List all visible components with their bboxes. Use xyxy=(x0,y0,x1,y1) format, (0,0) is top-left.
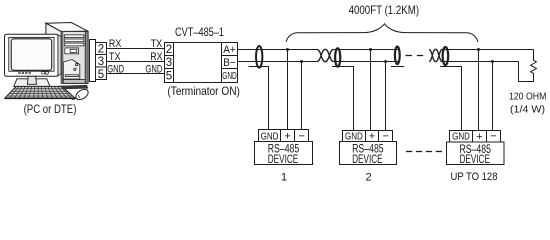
monitor body xyxy=(5,34,59,76)
GND stub 1 xyxy=(249,67,269,131)
U1 pin A+ cell xyxy=(222,55,238,57)
tap wire device2 plus xyxy=(370,50,372,131)
twist 1 wire A xyxy=(317,49,334,61)
tower front left dark edge xyxy=(61,32,63,84)
chain dashes between device 2 and 3 xyxy=(406,151,442,153)
keyboard xyxy=(5,86,76,98)
mouse xyxy=(74,87,90,101)
cable ellipse E4 xyxy=(443,47,449,65)
junction dot device1 minus xyxy=(300,60,303,63)
twist 1 wire B xyxy=(317,49,334,61)
tower floppy slot xyxy=(65,75,78,77)
computer tower front face xyxy=(61,31,88,83)
monitor bezel xyxy=(9,37,54,71)
connector P1 pin 5 box xyxy=(96,67,107,80)
wire bus B segment 1 xyxy=(238,61,318,63)
tower angled button panel xyxy=(63,60,80,80)
device 3 terminal block xyxy=(450,131,501,143)
tower drive bay 1 xyxy=(64,35,84,38)
monitor power switch xyxy=(42,72,45,74)
dimension brace xyxy=(286,24,478,42)
GND stub 2 xyxy=(332,67,354,131)
monitor stand base xyxy=(14,79,50,87)
svg-text:4000FT (1.2KM): 4000FT (1.2KM) xyxy=(349,3,420,17)
svg-text:DEVICE: DEVICE xyxy=(459,152,490,166)
U1 pin 2 cell xyxy=(165,55,174,57)
svg-text:−: − xyxy=(383,130,389,142)
wire GND-GND row3 xyxy=(107,73,165,75)
tower front right dark edge xyxy=(85,31,88,83)
tower drive bay 3 xyxy=(64,43,84,46)
svg-text:GND: GND xyxy=(107,63,124,75)
svg-text:GND: GND xyxy=(145,63,162,75)
junction dot device2 plus xyxy=(369,48,372,51)
junction dot device2 minus xyxy=(384,60,387,63)
connector P1 body xyxy=(90,40,96,82)
svg-text:RX: RX xyxy=(109,38,122,50)
tower reset button xyxy=(74,68,76,70)
monitor side depth xyxy=(58,35,61,76)
device 1 box xyxy=(255,142,313,165)
svg-text:−: − xyxy=(490,131,496,143)
svg-text:120 OHM: 120 OHM xyxy=(509,90,547,102)
svg-text:3: 3 xyxy=(166,57,172,69)
GND stub 4 xyxy=(440,67,462,131)
svg-text:TX: TX xyxy=(109,51,121,63)
monitor stand neck xyxy=(27,76,36,84)
mouse tail xyxy=(72,98,76,100)
wire TX-RX row2 xyxy=(107,61,165,63)
svg-text:RX: RX xyxy=(150,51,163,63)
tower badge panel xyxy=(65,48,79,54)
computer tower left face xyxy=(46,23,61,52)
cable ellipse E3 xyxy=(395,47,400,65)
svg-text:B−: B− xyxy=(223,57,236,69)
svg-text:5: 5 xyxy=(98,69,104,81)
U1 left pin column xyxy=(173,43,175,83)
device 2 box xyxy=(340,142,397,165)
twist 2 wire A xyxy=(429,49,442,61)
tower drive bay 2 xyxy=(64,39,84,42)
device 3 box xyxy=(447,142,505,165)
wire bus B segment 3 xyxy=(442,61,518,63)
svg-text:2: 2 xyxy=(98,44,104,56)
connector P1 pin 3 box xyxy=(96,55,107,68)
connector P1 pin 2 box xyxy=(96,43,107,55)
keyboard key columns xyxy=(9,86,71,98)
svg-text:2: 2 xyxy=(365,172,371,184)
svg-text:(PC or DTE): (PC or DTE) xyxy=(24,104,77,116)
svg-text:2: 2 xyxy=(166,44,172,56)
svg-text:3: 3 xyxy=(98,56,104,68)
svg-text:1: 1 xyxy=(281,172,287,184)
wire bus B segment 2 xyxy=(334,61,400,63)
device 1 terminal block xyxy=(259,130,309,142)
monitor screen xyxy=(11,39,52,71)
device 2 terminal block xyxy=(343,131,393,142)
svg-text:GND: GND xyxy=(222,71,237,82)
wire bus A segment 2 xyxy=(334,49,400,51)
GND stub 3 free xyxy=(391,66,404,68)
tap wire device2 minus xyxy=(385,62,387,131)
tap wire device3 plus xyxy=(478,50,480,131)
junction dot device3 plus xyxy=(477,48,480,51)
U1 pin GND cell xyxy=(222,68,238,70)
keyboard bottom shadow xyxy=(5,97,76,99)
wire RX-TX row1 xyxy=(107,48,165,50)
tower base shadow xyxy=(59,85,88,89)
wire bus A segment 1 xyxy=(238,49,318,51)
tower power button xyxy=(75,63,77,65)
svg-text:(1/4 W): (1/4 W) xyxy=(510,104,545,116)
monitor power led xyxy=(45,71,48,74)
junction dot device3 minus xyxy=(491,60,494,63)
monitor buttons xyxy=(19,72,31,74)
bus break dashes xyxy=(406,55,413,57)
tap wire device3 minus xyxy=(492,62,494,131)
svg-text:(Terminator ON): (Terminator ON) xyxy=(167,84,240,98)
cable ellipse E2 xyxy=(335,48,340,66)
svg-text:DEVICE: DEVICE xyxy=(352,152,383,166)
svg-text:−: − xyxy=(298,130,304,142)
svg-text:TX: TX xyxy=(151,38,163,50)
tap wire device1 plus xyxy=(287,50,289,131)
tower bottom bezel xyxy=(63,80,85,84)
svg-text:A+: A+ xyxy=(223,44,236,56)
twist 2 wire B xyxy=(429,49,442,61)
converter U1 CVT-485-1 box xyxy=(165,43,238,83)
computer tower top face xyxy=(46,23,88,32)
svg-text:UP TO 128: UP TO 128 xyxy=(451,171,498,183)
svg-text:5: 5 xyxy=(166,70,172,82)
U1 pin 5 cell xyxy=(165,68,174,70)
keyboard key rows xyxy=(7,89,73,96)
U1 right pin column xyxy=(221,43,223,83)
tower badge inner xyxy=(70,49,77,52)
resistor R1 terminator xyxy=(519,50,537,82)
svg-text:DEVICE: DEVICE xyxy=(268,152,299,166)
cable ellipse E1 xyxy=(256,46,262,68)
junction dot device1 plus xyxy=(286,48,289,51)
tap wire device1 minus xyxy=(301,62,303,131)
svg-text:CVT–485–1: CVT–485–1 xyxy=(175,25,224,39)
wire bus A segment 3 xyxy=(442,49,533,51)
